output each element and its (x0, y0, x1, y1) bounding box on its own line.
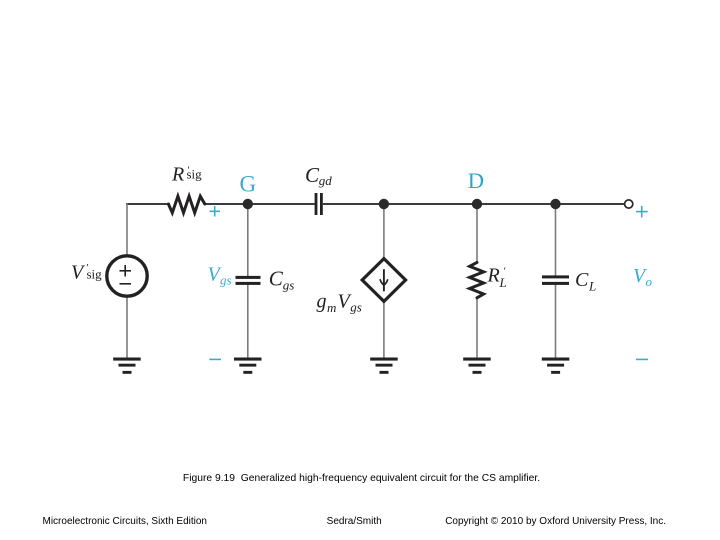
ground at RL (463, 358, 491, 374)
node at CL (550, 199, 560, 209)
wire top horizontal right segment (323, 203, 625, 205)
label - at gate bottom (209, 358, 221, 360)
wire top horizontal left segment (126, 203, 170, 205)
svg-text:R: R (487, 265, 500, 287)
node D (472, 199, 482, 209)
wire RL branch lower (476, 298, 478, 359)
resistor R'sig (168, 196, 204, 213)
svg-text:g: g (317, 291, 327, 313)
svg-text:gs: gs (350, 300, 362, 315)
svg-text:sig: sig (187, 167, 203, 182)
dependent current source gmVgs (362, 259, 405, 302)
label Cgd (305, 163, 332, 188)
capacitor CL (542, 275, 569, 285)
svg-text:gd: gd (319, 173, 333, 188)
wire RL branch upper (476, 204, 478, 263)
svg-text:gs: gs (220, 273, 232, 288)
svg-text:sig: sig (87, 267, 103, 282)
wire CL branch lower (555, 284, 557, 358)
ground at Cgs (234, 358, 262, 374)
label gmVgs (317, 291, 362, 316)
svg-text:Sedra/Smith: Sedra/Smith (327, 516, 382, 527)
wire CL branch upper (555, 204, 557, 276)
label + at gate (210, 206, 221, 217)
voltage source V'sig (107, 256, 147, 296)
svg-text:Microelectronic Circuits, Sixt: Microelectronic Circuits, Sixth Edition (43, 516, 208, 527)
output terminal (open circle) (625, 200, 633, 208)
wire left branch lower (126, 296, 128, 358)
resistor R'L (470, 262, 484, 297)
wire Cgs branch lower (247, 284, 249, 358)
wire gmVgs branch upper (383, 204, 385, 260)
wire top horizontal middle segment (204, 203, 315, 205)
svg-text:Copyright © 2010 by Oxford Uni: Copyright © 2010 by Oxford University Pr… (445, 516, 666, 527)
svg-text:D: D (468, 168, 484, 193)
node between Cgd and D (379, 199, 389, 209)
ground at V'sig (113, 358, 141, 374)
label Vo (cyan) (633, 265, 653, 289)
label Vgs (cyan) (208, 264, 232, 288)
svg-text:C: C (305, 163, 320, 187)
label - at output bottom (636, 358, 648, 360)
capacitor Cgd (315, 193, 323, 215)
wire Cgs branch upper (247, 204, 249, 277)
svg-text:o: o (646, 274, 653, 289)
wire left branch upper (126, 203, 128, 256)
label R'sig (171, 164, 202, 186)
label + at output (636, 206, 648, 218)
svg-text:R: R (171, 164, 184, 186)
svg-text:C: C (575, 269, 589, 291)
ground at CL (542, 358, 570, 374)
svg-text:Figure 9.19 Generalized high-: Figure 9.19 Generalized high-frequency e… (183, 473, 540, 484)
svg-text:L: L (588, 279, 596, 294)
svg-text:L: L (499, 275, 507, 290)
label V'sig (71, 261, 102, 283)
svg-text:C: C (269, 267, 284, 291)
node G (243, 199, 253, 209)
ground at gmVgs (370, 358, 398, 374)
svg-text:m: m (327, 300, 336, 315)
label R'L (487, 265, 507, 291)
wire gmVgs branch lower (383, 300, 385, 359)
capacitor Cgs (236, 276, 261, 285)
svg-text:G: G (240, 171, 257, 196)
svg-text:gs: gs (283, 278, 295, 293)
label CL (575, 269, 596, 294)
label Cgs (269, 267, 295, 293)
